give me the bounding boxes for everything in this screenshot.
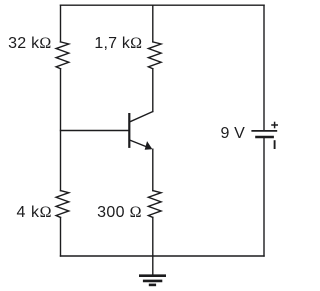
svg-text:9 V: 9 V [221,125,246,142]
transistor Q1 base bar [128,114,130,147]
transistor Q1 collector diagonal [130,112,153,122]
resistor 1,7 kOhm [148,42,161,69]
battery V 9V long positive plate [251,130,277,132]
wire base horizontal [61,130,130,132]
transistor Q1 emitter arrowhead [145,142,152,149]
wire collector drop [152,69,154,112]
svg-text:32 kΩ: 32 kΩ [8,35,51,52]
transistor Q1 emitter diagonal [130,140,151,148]
wire right rail lower [263,137,265,256]
battery minus terminal tick [274,140,276,149]
battery plus sign [271,122,278,129]
wire left rail middle segment [60,69,62,191]
wire emitter drop [152,149,154,190]
wire left rail lower segment [60,217,62,256]
wire top rail [61,4,265,6]
resistor 32 kOhm [56,42,69,69]
svg-text:300 Ω: 300 Ω [97,204,142,221]
svg-text:1,7 kΩ: 1,7 kΩ [94,35,142,52]
resistor 4 kOhm [56,191,69,218]
wire left rail upper segment [60,5,62,42]
wire bottom rail [61,255,265,257]
resistor 300 Ohm [148,191,161,218]
battery V 9V short negative plate [255,136,274,138]
svg-text:4 kΩ: 4 kΩ [16,204,52,221]
wire middle branch to ground [152,217,154,275]
wire right rail upper [263,5,265,131]
ground [139,276,166,285]
wire middle branch top drop [152,5,154,42]
